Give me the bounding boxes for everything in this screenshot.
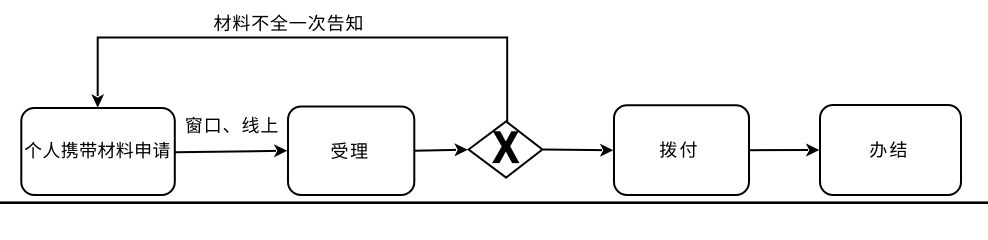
arrowhead into box2 [274, 144, 288, 157]
label: 材料不全一次告知 [214, 14, 362, 31]
process box: 个人携带材料申请 [21, 108, 175, 195]
process box: 办结 [820, 105, 961, 195]
arrowhead into diamond [454, 143, 468, 156]
label: 办结 [870, 141, 906, 158]
bottom horizontal rule [0, 201, 988, 204]
arrowhead into box3 [600, 144, 614, 157]
label: X in diamond [493, 132, 518, 163]
wire: feedback from diamond top, up-left-down into box1 [98, 38, 508, 123]
arrowhead feedback into box1 top [91, 94, 104, 108]
wire: diamond to box3 [542, 149, 602, 152]
label: 窗口、线上 [186, 117, 277, 134]
process box: 拨付 [614, 105, 749, 195]
arrowhead into box4 [806, 143, 820, 156]
decision diamond X [469, 121, 543, 177]
label: 拨付 [660, 141, 697, 158]
process box: 受理 [288, 107, 414, 196]
wire: box3 to box4 [749, 149, 808, 151]
wire: box1 to box2 [175, 151, 276, 152]
label: 受理 [331, 142, 367, 159]
wire: box2 to diamond [414, 149, 456, 152]
label: 个人携带材料申请 [25, 142, 170, 159]
